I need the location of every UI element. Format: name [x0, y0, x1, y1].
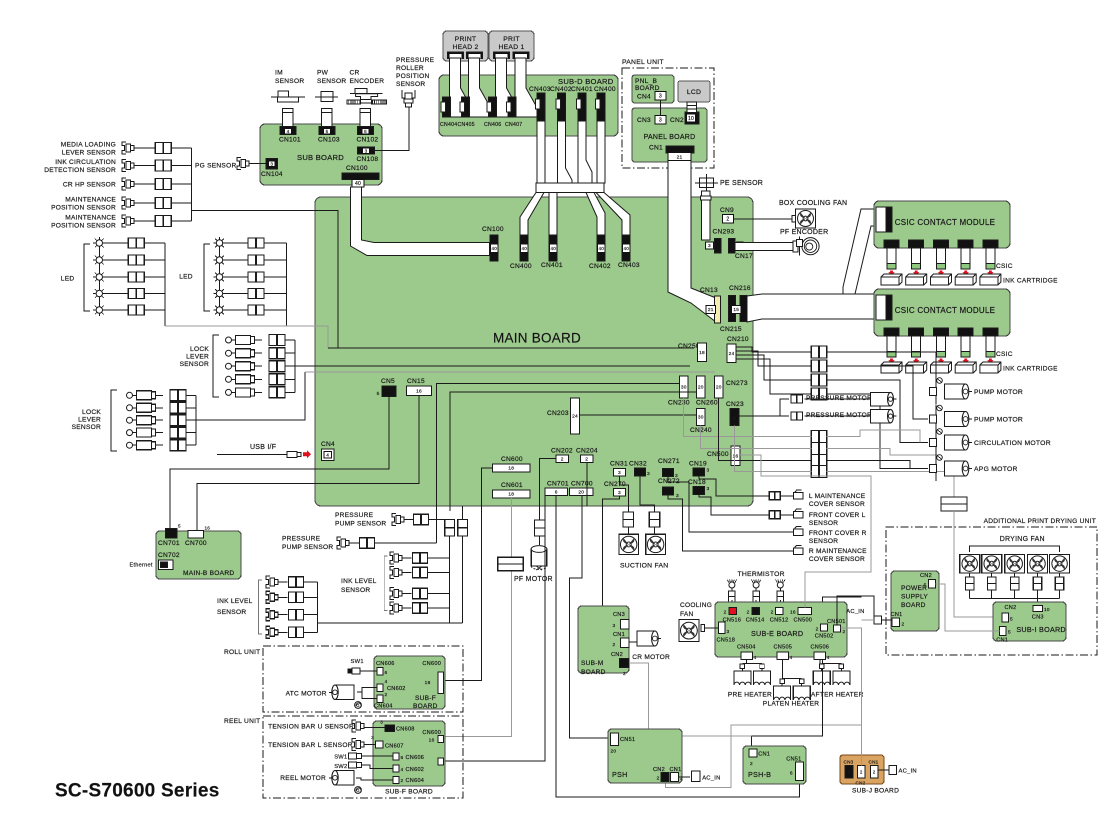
wire CN501 to power AC_IN	[837, 596, 874, 625]
svg-text:3: 3	[659, 118, 662, 124]
ink cartridge	[931, 274, 952, 285]
group1 pair wires to pump motor 2	[827, 366, 928, 419]
IM sensor ribbon	[283, 108, 294, 126]
wire SW1 to CN606	[361, 755, 393, 757]
svg-text:L MAINTENANCE: L MAINTENANCE	[809, 493, 866, 500]
CSIC pin connector	[983, 328, 998, 336]
connector CN502	[821, 624, 828, 631]
sub board	[260, 124, 382, 185]
lock lever sensor lower	[127, 442, 133, 448]
svg-text:BOARD: BOARD	[413, 703, 438, 710]
svg-text:CN406: CN406	[484, 122, 501, 128]
svg-text:16: 16	[429, 738, 435, 744]
svg-text:SUCTION FAN: SUCTION FAN	[620, 563, 668, 570]
CSIC pin connector	[958, 240, 973, 248]
ink cartridge	[906, 274, 927, 285]
svg-text:CN31: CN31	[610, 461, 628, 468]
svg-text:SENSOR: SENSOR	[72, 424, 101, 431]
wire ink bus join	[318, 622, 463, 624]
wire LCD-CN2	[687, 102, 697, 113]
LED connector pair bank1	[128, 289, 144, 299]
svg-text:2: 2	[385, 692, 388, 698]
svg-text:CSIC: CSIC	[996, 263, 1013, 270]
LED lamp bank1	[96, 257, 102, 263]
svg-text:INK LEVEL: INK LEVEL	[341, 578, 377, 585]
LED bank 2 vertical link	[219, 243, 221, 310]
svg-text:CN701: CN701	[547, 481, 569, 488]
CSIC pin connector	[983, 240, 998, 248]
svg-text:20: 20	[698, 385, 704, 391]
svg-text:AC_IN: AC_IN	[899, 769, 917, 775]
svg-text:21: 21	[677, 154, 683, 160]
wire SW2 to CN602	[361, 765, 393, 769]
connector CN406	[489, 97, 497, 117]
motor wire pair group2	[811, 455, 826, 467]
svg-text:5: 5	[1008, 630, 1011, 636]
wire CN1 to CR motor	[629, 641, 637, 643]
svg-text:ATC MOTOR: ATC MOTOR	[286, 691, 327, 698]
red arrow to cartridge	[913, 359, 919, 364]
sensor connector pair	[155, 160, 171, 171]
svg-text:20: 20	[611, 749, 617, 755]
wire lock lever lower to main board	[196, 372, 305, 420]
svg-text:21: 21	[708, 307, 714, 313]
svg-text:40: 40	[355, 181, 361, 187]
drying fan	[1050, 554, 1070, 572]
red arrow to cartridge	[938, 271, 944, 276]
ink cartridge	[931, 362, 952, 373]
svg-text:2: 2	[401, 778, 404, 784]
connector CN101	[280, 127, 296, 135]
svg-text:CN100: CN100	[346, 165, 368, 172]
reel motor wires	[356, 778, 393, 780]
svg-text:SUB-M: SUB-M	[581, 660, 604, 667]
ribbon band to CN402 main	[586, 193, 605, 237]
wire CN23 to group2	[735, 426, 812, 472]
wire to pair	[226, 242, 248, 244]
pump motor	[935, 377, 937, 404]
L maintenance cover sensor pair	[769, 492, 780, 500]
svg-text:MAINTENANCE: MAINTENANCE	[65, 215, 116, 222]
ribbon CN402 down	[558, 121, 573, 183]
connector CN405	[462, 97, 470, 117]
svg-text:3: 3	[727, 629, 730, 635]
svg-text:PW: PW	[317, 70, 329, 77]
sub-i board	[993, 602, 1066, 641]
wire pair to bus	[144, 242, 164, 244]
wire pressure motor2 line	[804, 415, 870, 417]
svg-text:6: 6	[555, 489, 558, 495]
connector CN273	[715, 376, 724, 398]
wire to pair	[106, 242, 129, 244]
wire to left bus	[304, 614, 318, 616]
svg-text:SW2: SW2	[334, 764, 347, 770]
wire thermistor to board	[755, 600, 757, 608]
svg-text:PRIT: PRIT	[503, 36, 519, 43]
red arrow to cartridge	[987, 359, 993, 364]
CSIC pin connector	[884, 240, 899, 248]
svg-text:30: 30	[698, 415, 704, 421]
LED connector pair bank2	[248, 272, 264, 282]
ribbon print head 1 to CN406	[496, 58, 521, 117]
svg-text:POSITION SENSOR: POSITION SENSOR	[51, 205, 116, 212]
motor wire pair group2	[811, 443, 826, 455]
PF encoder ribbon	[735, 243, 793, 251]
PF encoder symbol	[802, 238, 819, 255]
svg-text:R MAINTENANCE: R MAINTENANCE	[809, 548, 867, 555]
lock lever sensor lower	[127, 405, 133, 411]
svg-text:CN402: CN402	[589, 263, 611, 270]
svg-text:CN100: CN100	[482, 226, 504, 233]
lock lever sensor upper	[226, 350, 232, 356]
wire pair to bus	[285, 339, 295, 341]
svg-text:2: 2	[873, 769, 876, 774]
ink cartridge	[980, 274, 1001, 285]
svg-text:18: 18	[508, 466, 514, 472]
svg-text:CN512: CN512	[770, 618, 789, 624]
svg-text:SUB-D BOARD: SUB-D BOARD	[558, 77, 614, 86]
svg-text:CN402: CN402	[550, 86, 572, 93]
svg-text:Ethernet: Ethernet	[130, 563, 153, 569]
red arrow to cartridge	[888, 271, 894, 276]
LED lamp bank1	[96, 240, 102, 246]
drying fan	[1028, 554, 1048, 572]
wire CN2 sub-m run	[629, 663, 751, 736]
ink bus A	[449, 536, 451, 623]
USB red arrow	[303, 450, 311, 458]
svg-text:CN403: CN403	[618, 262, 640, 269]
svg-text:CSIC: CSIC	[996, 351, 1013, 358]
wire to bus A	[428, 607, 450, 609]
wire drying fan to bus	[1014, 590, 1016, 598]
tension bar L sensor symbol	[352, 739, 356, 751]
lock lever sensor upper	[226, 363, 232, 369]
svg-text:PANEL BOARD: PANEL BOARD	[644, 134, 696, 141]
wire pair to bus	[171, 220, 191, 222]
svg-text:PSH: PSH	[612, 770, 628, 779]
connector CN260	[697, 376, 706, 398]
lock lever upper bus	[294, 340, 296, 392]
svg-text:COVER SENSOR: COVER SENSOR	[809, 556, 865, 563]
gray wire CN500 main to sub-e CN500	[740, 455, 871, 608]
SW1 reel symbol	[348, 753, 356, 759]
pnl_b board	[632, 75, 674, 103]
lcd	[678, 81, 710, 102]
ribbon print head 2 to CN405	[469, 58, 494, 117]
wire CN601 to reel sub-f CN600	[444, 498, 512, 737]
svg-text:5: 5	[178, 524, 181, 529]
front cover L sensor	[794, 512, 804, 518]
ribbon band to CN400 main	[520, 193, 544, 237]
svg-text:PLATEN HEATER: PLATEN HEATER	[763, 701, 820, 708]
print head 1 tabs	[494, 52, 510, 59]
svg-text:2: 2	[613, 642, 616, 648]
lock lever sensor lower	[127, 430, 133, 436]
svg-text:40: 40	[521, 246, 527, 251]
svg-text:CN407: CN407	[505, 122, 522, 128]
svg-text:PUMP MOTOR: PUMP MOTOR	[974, 417, 1023, 424]
wire CN271 to front cover R sensor	[668, 477, 794, 533]
LED connector pair bank1	[128, 305, 144, 315]
group1 pair wires to pump motor 1	[827, 352, 936, 377]
wire to pair	[226, 259, 248, 261]
AC_IN connector sub-j	[878, 769, 889, 771]
group1 pair wires to circulation motor	[827, 380, 928, 443]
ink level sensor right row	[390, 602, 394, 614]
suction fan 2 pair	[649, 512, 660, 527]
svg-text:CN700: CN700	[571, 481, 593, 488]
lock lever pair upper	[269, 348, 285, 359]
svg-text:INK CARTRIDGE: INK CARTRIDGE	[1003, 366, 1058, 373]
svg-text:CN2: CN2	[920, 573, 932, 579]
drying fan connector	[987, 577, 996, 590]
svg-text:CN600: CN600	[422, 661, 441, 667]
motor wire pair group2	[811, 431, 826, 443]
heater wires	[782, 660, 784, 679]
svg-text:HEAD 2: HEAD 2	[452, 44, 478, 51]
svg-text:CR: CR	[350, 70, 360, 77]
sensor connector pair	[155, 143, 171, 154]
pressure motor 2 pair	[791, 412, 803, 420]
drying fan connector	[965, 577, 974, 590]
svg-text:INK LEVEL: INK LEVEL	[217, 598, 253, 605]
svg-text:CN3: CN3	[1032, 615, 1044, 621]
connector CN102	[358, 127, 374, 135]
wire pair to bus	[264, 309, 286, 311]
svg-text:SUB-I BOARD: SUB-I BOARD	[1016, 625, 1065, 634]
wire to pair	[255, 378, 263, 380]
connector CN607	[376, 741, 383, 748]
ribbon CN100 to main board	[351, 187, 490, 256]
USB plug	[287, 452, 297, 458]
svg-text:PRESSURE: PRESSURE	[282, 536, 321, 543]
ribbon band to CN403 main	[596, 193, 630, 237]
wire CN31 to suction fan 1	[620, 476, 629, 512]
svg-text:CN602: CN602	[387, 686, 406, 692]
svg-text:5: 5	[377, 391, 380, 397]
connector CN407	[508, 97, 516, 117]
red arrow to cartridge	[987, 271, 993, 276]
CSIC module left connector	[876, 295, 892, 320]
CSIC contact module 1	[874, 201, 1010, 248]
svg-text:3: 3	[618, 470, 621, 476]
svg-text:PE SENSOR: PE SENSOR	[720, 180, 763, 187]
svg-text:CN2: CN2	[1005, 605, 1017, 611]
pressure motor 2	[871, 409, 891, 423]
LED connector pair bank2	[248, 289, 264, 299]
panel unit enclosure	[622, 68, 714, 168]
svg-text:PG SENSOR: PG SENSOR	[195, 163, 236, 170]
heater wires	[819, 660, 821, 664]
svg-text:18: 18	[699, 350, 705, 356]
svg-text:CN2: CN2	[670, 117, 684, 124]
svg-text:CN606: CN606	[406, 755, 425, 761]
psh-b board	[743, 746, 806, 784]
svg-text:CN15: CN15	[407, 378, 425, 385]
drying fan connector	[1010, 577, 1019, 590]
wire to pair	[255, 339, 263, 341]
svg-text:CN1: CN1	[996, 638, 1008, 644]
wire sensor bus into main board	[191, 211, 338, 349]
wire CN1 to AC_IN	[679, 776, 691, 778]
pressure pump sensor 1 symbol	[392, 514, 396, 526]
svg-text:AC_IN: AC_IN	[702, 776, 720, 782]
svg-text:CN518: CN518	[717, 638, 736, 644]
circulation motor	[935, 428, 937, 455]
PW sensor symbol	[321, 91, 333, 101]
wire CN701 to PSH-B CN51	[556, 496, 799, 797]
LED connector pair bank2	[248, 305, 264, 315]
ink level sensor right row	[390, 567, 394, 579]
svg-text:CN1: CN1	[649, 145, 663, 152]
drying fan	[960, 554, 980, 572]
svg-text:18: 18	[425, 680, 431, 686]
svg-text:30: 30	[681, 385, 687, 391]
svg-text:LEVER: LEVER	[78, 417, 101, 424]
lock lever lower bus	[195, 395, 197, 445]
CR motor	[637, 631, 655, 646]
connector CN104	[266, 159, 278, 170]
wire to pair	[134, 220, 155, 222]
wire to CN607	[365, 744, 376, 746]
svg-text:CN271: CN271	[658, 458, 680, 465]
sensor connector pair	[155, 198, 171, 209]
drying fan connector	[1055, 577, 1064, 590]
svg-text:3: 3	[380, 720, 383, 726]
svg-text:ROLLER: ROLLER	[396, 65, 424, 72]
svg-text:PUMP MOTOR: PUMP MOTOR	[974, 389, 1023, 396]
svg-text:CR MOTOR: CR MOTOR	[632, 654, 670, 661]
wire to pair	[156, 444, 164, 446]
thermistor	[777, 582, 783, 588]
svg-text:CN9: CN9	[720, 207, 734, 214]
suction fan 1	[619, 534, 639, 554]
svg-text:CN403: CN403	[529, 86, 551, 93]
wire pair to bus	[264, 259, 286, 261]
svg-text:CN506: CN506	[811, 645, 830, 651]
wire to left bus	[304, 581, 318, 583]
svg-text:CN3: CN3	[844, 760, 854, 765]
svg-text:PF ENCODER: PF ENCODER	[780, 229, 828, 236]
LED lamp bank2	[216, 240, 222, 246]
ribbon CN216 to CSIC module 2	[747, 294, 877, 322]
USB cable	[217, 454, 287, 456]
svg-text:REEL UNIT: REEL UNIT	[224, 718, 260, 725]
wire pair to bus	[285, 352, 295, 354]
wire SW1 to CN606	[360, 670, 377, 672]
wire to bus A	[428, 593, 450, 595]
pump motor	[935, 405, 937, 432]
wire to pair	[106, 309, 129, 311]
svg-text:3: 3	[613, 623, 616, 629]
wire to pair	[106, 276, 129, 278]
svg-text:CN404: CN404	[440, 122, 457, 128]
svg-text:15: 15	[733, 307, 739, 313]
wire drying fan to bus	[969, 590, 971, 598]
svg-text:REEL MOTOR: REEL MOTOR	[280, 775, 326, 782]
svg-text:BOARD: BOARD	[635, 85, 660, 92]
lock lever pair lower	[170, 415, 186, 426]
ink level sensor right bracket	[384, 556, 387, 611]
tension bar U sensor symbol	[352, 720, 356, 732]
pressure motor 1	[871, 392, 891, 406]
svg-text:CN1: CN1	[758, 752, 770, 758]
svg-text:G: G	[356, 703, 360, 708]
svg-text:3: 3	[270, 161, 273, 166]
svg-text:16: 16	[733, 453, 739, 459]
svg-text:LEVER: LEVER	[186, 354, 209, 361]
connector CN602 reel	[393, 765, 399, 772]
ribbon crossover band	[536, 183, 604, 193]
svg-text:CN3: CN3	[613, 612, 625, 618]
svg-text:ENCODER: ENCODER	[350, 78, 385, 85]
svg-text:5: 5	[924, 583, 927, 589]
svg-text:4: 4	[287, 129, 290, 134]
svg-text:PRE HEATER: PRE HEATER	[728, 692, 772, 699]
svg-text:BOARD: BOARD	[901, 602, 926, 609]
power supply board	[891, 571, 939, 631]
svg-text:CN606: CN606	[376, 661, 395, 667]
connector CN606 reel	[393, 753, 399, 760]
svg-text:CN5: CN5	[381, 378, 395, 385]
svg-text:10: 10	[1044, 607, 1050, 613]
group2 wires to APG motor	[827, 461, 928, 469]
wire pair to bus	[285, 378, 295, 380]
main-b board	[156, 531, 241, 579]
ink cartridge	[980, 362, 1001, 373]
svg-text:20: 20	[578, 489, 584, 495]
LED lamp bank1	[96, 274, 102, 280]
svg-text:INK CIRCULATION: INK CIRCULATION	[55, 159, 116, 166]
svg-text:MAIN-B BOARD: MAIN-B BOARD	[183, 570, 234, 577]
group2 wires right	[827, 449, 940, 456]
svg-text:5: 5	[326, 129, 329, 134]
wire CN19 to L maintenance sensor	[699, 476, 770, 496]
connector CN600-2 reel	[438, 758, 444, 765]
front cover R sensor	[794, 529, 804, 536]
svg-text:CN104: CN104	[261, 171, 283, 178]
CR encoder symbol	[355, 89, 367, 94]
main board	[315, 197, 753, 506]
ink cartridge	[955, 362, 976, 373]
lock lever sensor upper	[226, 337, 232, 343]
svg-text:FRONT COVER L: FRONT COVER L	[809, 512, 866, 519]
ribbon band to CN401 main	[549, 193, 557, 237]
svg-text:2: 2	[771, 610, 774, 616]
LED bank 2 bracket	[204, 244, 210, 311]
lock lever upper bracket	[213, 335, 219, 397]
CSIC pin connector	[934, 328, 949, 336]
svg-text:2: 2	[750, 761, 753, 767]
svg-text:CN505: CN505	[774, 645, 793, 651]
PW sensor ribbon	[322, 108, 333, 126]
wire to pair	[255, 391, 263, 393]
svg-text:SENSOR: SENSOR	[809, 520, 838, 527]
drying fan	[982, 554, 1002, 572]
svg-text:CN1: CN1	[613, 632, 625, 638]
connector CN602 roll	[377, 684, 383, 691]
lock lever lower bracket	[111, 390, 117, 451]
L maintenance cover sensor	[794, 493, 804, 500]
svg-text:CN2: CN2	[611, 652, 623, 658]
LED bank 1 bracket	[84, 244, 90, 311]
red arrow to cartridge	[913, 271, 919, 276]
LED bank 1 vertical link	[98, 243, 100, 310]
svg-text:POSITION SENSOR: POSITION SENSOR	[51, 223, 116, 230]
wire to left bus	[304, 631, 318, 633]
wire to pair	[134, 202, 155, 204]
svg-text:3: 3	[647, 471, 650, 477]
